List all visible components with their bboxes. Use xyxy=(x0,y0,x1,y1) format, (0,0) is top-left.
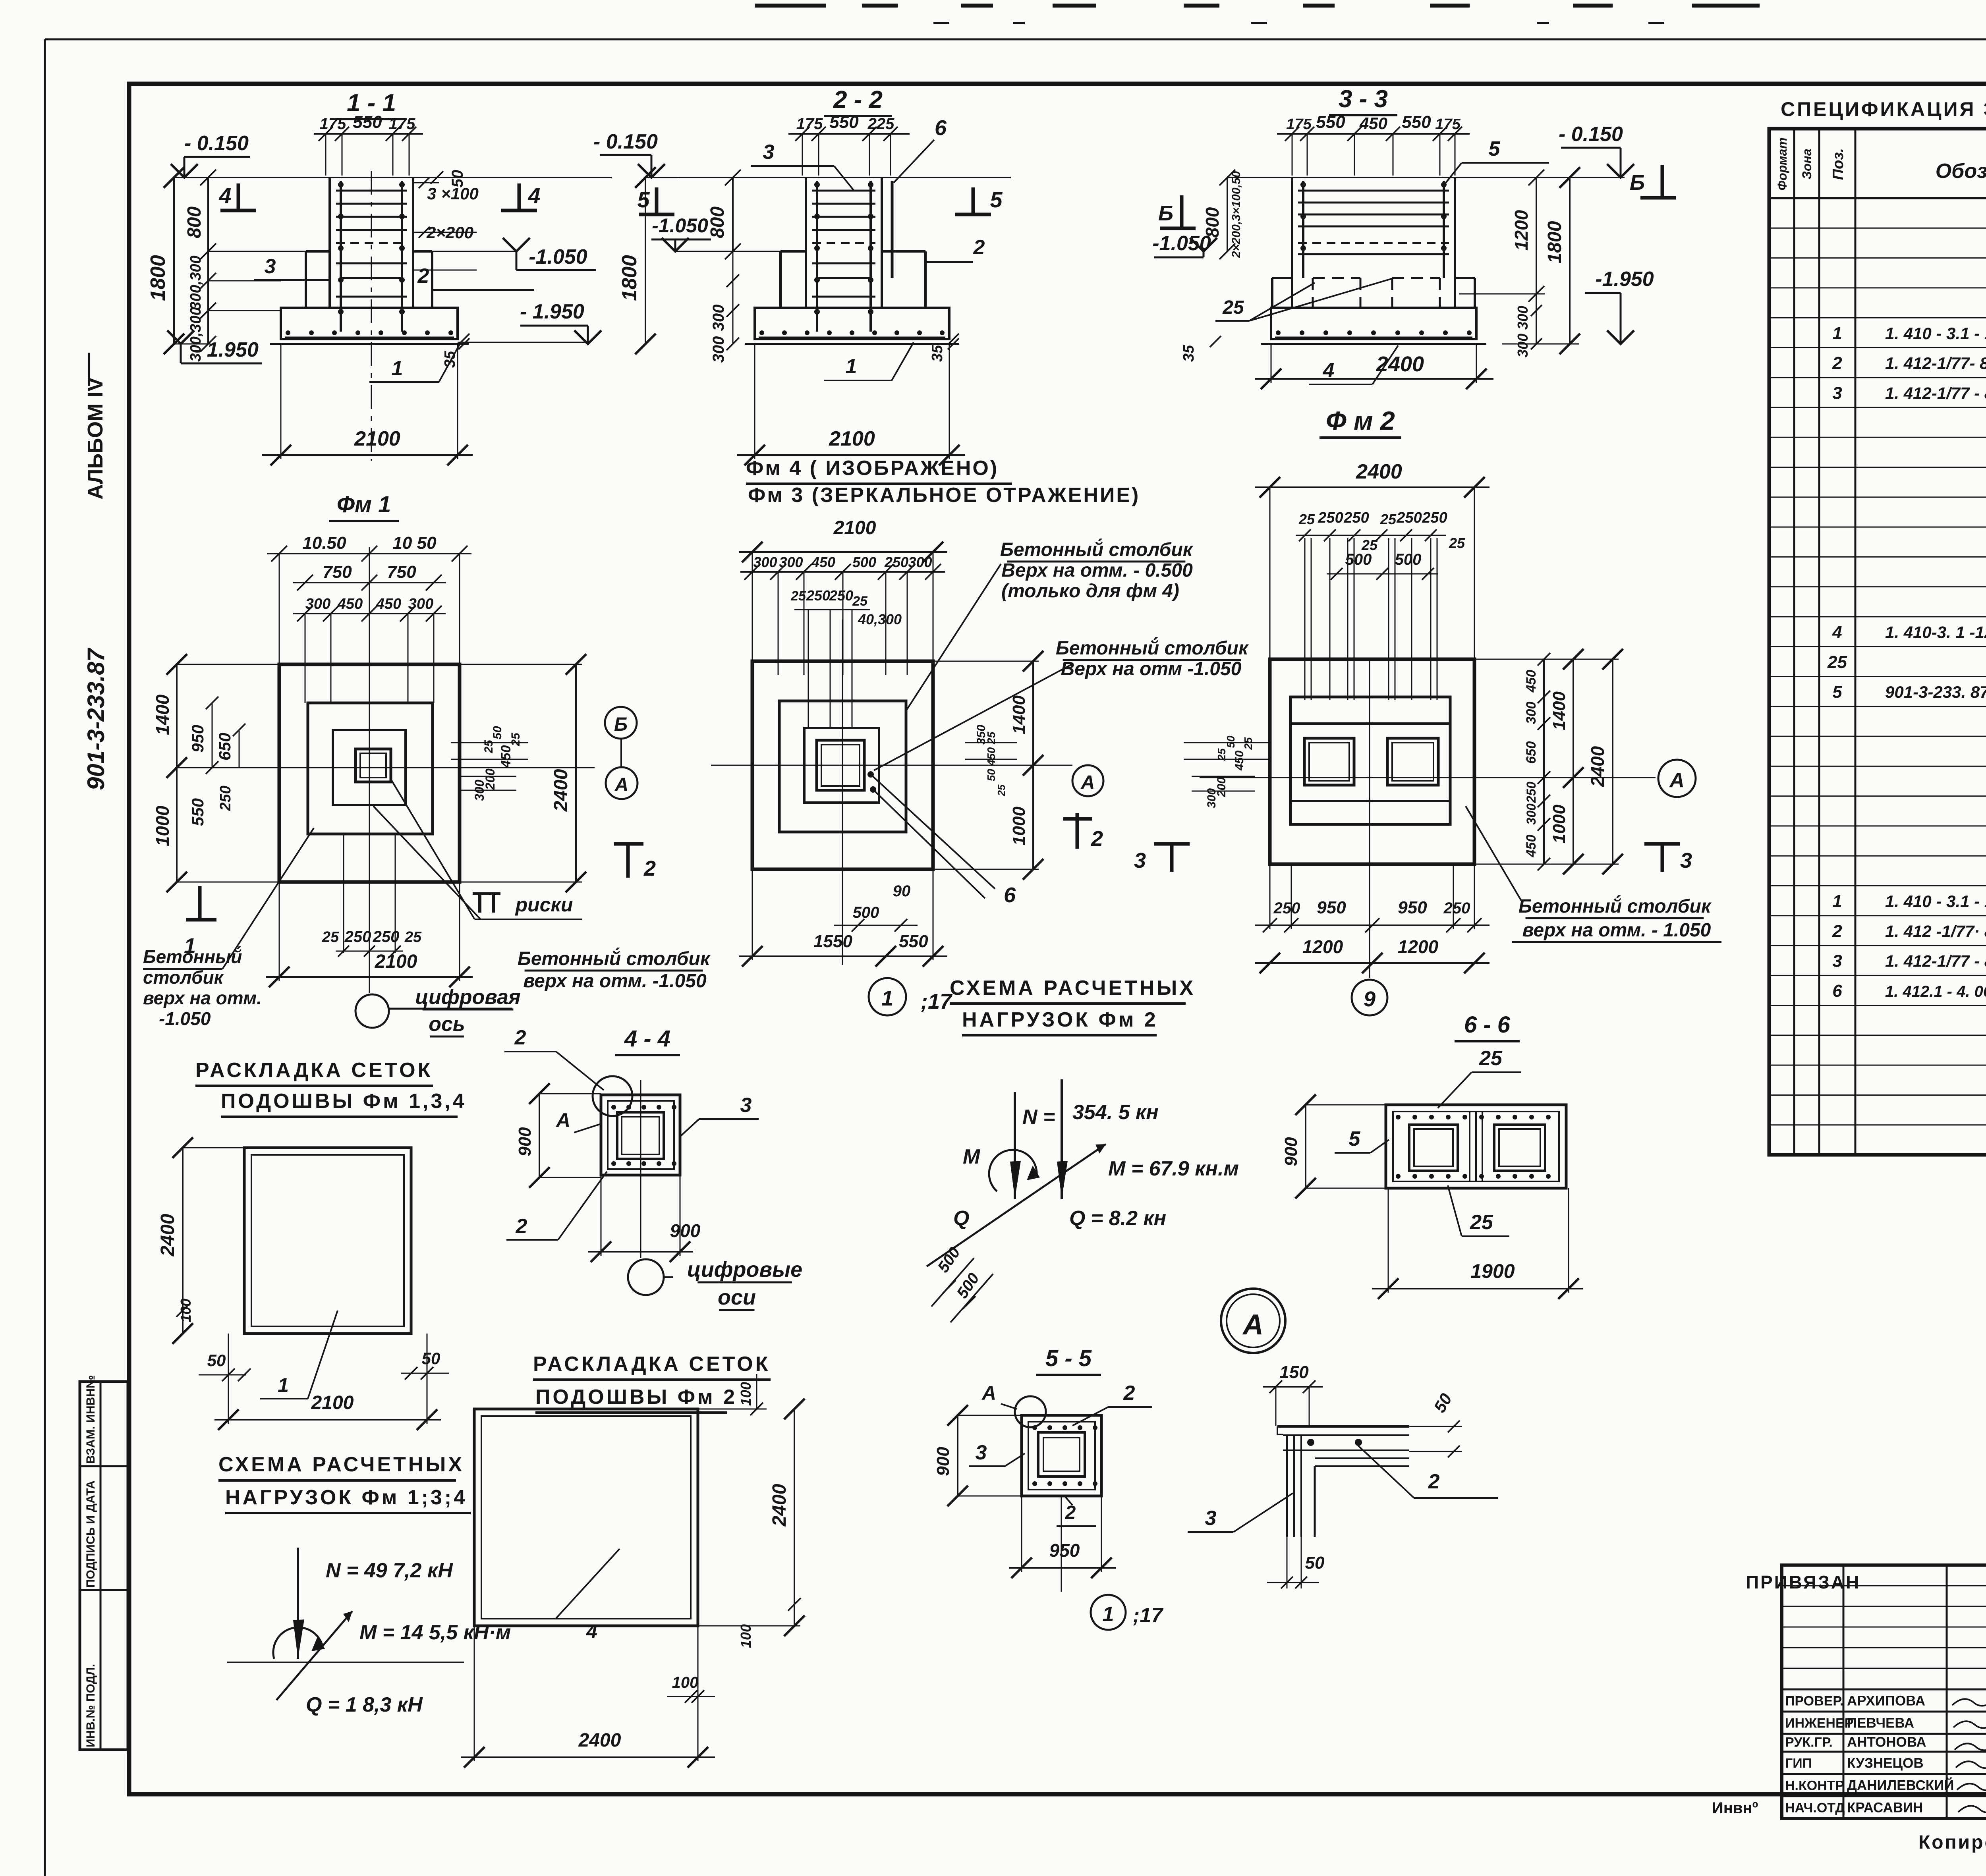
svg-text:риски: риски xyxy=(515,894,573,916)
section 1-1 step level extension xyxy=(432,251,586,342)
svg-text:РАСКЛАДКА СЕТОК: РАСКЛАДКА СЕТОК xyxy=(533,1353,770,1376)
svg-text:ПРОВЕР.: ПРОВЕР. xyxy=(1785,1693,1843,1708)
svg-text:ГИП: ГИП xyxy=(1785,1756,1812,1771)
section 2-2 left dim chain xyxy=(618,167,806,363)
section 1-1 column xyxy=(330,178,413,308)
svg-text:Q = 1 8,3 кН: Q = 1 8,3 кН xyxy=(306,1693,423,1716)
svg-text:цифровая: цифровая xyxy=(415,986,520,1009)
svg-text:35: 35 xyxy=(1180,345,1197,362)
section 2-2 section mark 5 right xyxy=(955,187,1003,214)
Фм2 plan footing outline xyxy=(1270,659,1474,864)
section 3-3 elevation -1.050 left xyxy=(1152,232,1217,257)
svg-text:Верх на отм. - 0.500: Верх на отм. - 0.500 xyxy=(1001,560,1193,581)
Фм2 section mark 3 left xyxy=(1134,844,1190,872)
section 1-1 leader 1 xyxy=(369,342,461,382)
svg-text:50 450 25: 50 450 25 xyxy=(985,731,997,781)
svg-text:750: 750 xyxy=(323,562,352,582)
svg-text:901-3-233. 87 - КЖИ.60.01.0: 901-3-233. 87 - КЖИ.60.01.00 xyxy=(1885,683,1986,701)
svg-text:Верх на отм -1.050: Верх на отм -1.050 xyxy=(1061,658,1242,679)
svg-text:Бетонный́ столбик: Бетонный́ столбик xyxy=(518,948,711,969)
title block roles and names xyxy=(1785,1693,1986,1815)
section 1-1 column axis xyxy=(371,171,372,461)
svg-text:500: 500 xyxy=(852,554,876,570)
svg-text:354. 5 кн: 354. 5 кн xyxy=(1072,1101,1159,1124)
section 1-1 title xyxy=(337,89,406,119)
svg-text:300: 300 xyxy=(408,596,433,612)
svg-text:500: 500 xyxy=(1395,551,1422,568)
svg-text:А: А xyxy=(1669,769,1685,792)
svg-text:250: 250 xyxy=(1422,510,1447,526)
svg-text:2×200,3×100,50: 2×200,3×100,50 xyxy=(1230,171,1243,258)
Фм2 right dim chains xyxy=(1474,649,1623,874)
Фм4 plan inner step xyxy=(804,728,879,803)
svg-text:6 - 6: 6 - 6 xyxy=(1464,1012,1511,1038)
svg-text:450: 450 xyxy=(498,745,514,768)
svg-text:25: 25 xyxy=(1470,1211,1493,1234)
svg-text:5: 5 xyxy=(637,187,650,212)
svg-text:ВЗАМ. ИНВН№: ВЗАМ. ИНВН№ xyxy=(84,1375,97,1464)
section 1-1 label 50 xyxy=(431,170,466,188)
svg-text:200: 200 xyxy=(1215,777,1228,797)
svg-text:901-3-233.87: 901-3-233.87 xyxy=(83,647,109,790)
Фм4 dims 25 250 250 25 xyxy=(790,587,902,727)
specification table header xyxy=(1775,137,1986,191)
svg-text:250: 250 xyxy=(884,554,908,570)
svg-text:ПОДПИСЬ И ДАТА: ПОДПИСЬ И ДАТА xyxy=(84,1480,97,1588)
svg-text:6: 6 xyxy=(935,116,947,140)
section 4-4 left dim 900 xyxy=(515,1083,601,1188)
Фм1 top dimension 750 750 xyxy=(293,562,446,591)
svg-text:250: 250 xyxy=(217,786,234,811)
section 2-2 column xyxy=(806,178,882,308)
svg-text:M = 67.9 кн.м: M = 67.9 кн.м xyxy=(1108,1157,1239,1180)
section 2-2 column rebar cage xyxy=(812,181,875,332)
section 3-3 section mark Б right xyxy=(1630,165,1676,198)
section 2-2 elevation -0.150 left xyxy=(593,130,665,178)
section 4-4 bottom dim 900 xyxy=(588,1175,701,1262)
svg-text:450: 450 xyxy=(1233,751,1246,771)
svg-text:2: 2 xyxy=(1123,1382,1135,1405)
Фм2 plan axes xyxy=(1200,659,1656,978)
svg-text:500: 500 xyxy=(853,904,879,921)
svg-text:4 - 4: 4 - 4 xyxy=(624,1026,670,1052)
section 2-2 step level extension xyxy=(675,251,780,252)
detail А corner drawing xyxy=(1277,1426,1409,1537)
section 1-1 top dimension 175,550,175 xyxy=(314,112,423,176)
detail А circle xyxy=(1221,1289,1285,1353)
mesh layout Фм2 bottom dims xyxy=(461,1626,715,1768)
svg-text:1800: 1800 xyxy=(1544,221,1565,263)
section 6-6 leader 25 bottom xyxy=(1448,1185,1509,1236)
svg-text:3: 3 xyxy=(265,255,276,278)
foundation Фм1 plan title xyxy=(329,492,399,521)
Фм2 mesh dims row xyxy=(1296,510,1465,580)
svg-text:250: 250 xyxy=(344,928,371,946)
Фм1 right dim 2400 xyxy=(460,654,586,892)
svg-text:450: 450 xyxy=(1359,114,1387,133)
section 3-3 left dim chain 800 xyxy=(1202,170,1243,259)
svg-text:300: 300 xyxy=(1515,334,1531,357)
section 1-1 bottom dimension 2100 xyxy=(262,345,473,465)
svg-text:СХЕМА РАСЧЕТНЫХ: СХЕМА РАСЧЕТНЫХ xyxy=(950,977,1196,1000)
svg-text:35: 35 xyxy=(442,351,458,368)
svg-text:10 50: 10 50 xyxy=(392,533,437,553)
section 1-1 footing mesh xyxy=(285,330,454,338)
svg-text:250: 250 xyxy=(1524,782,1538,803)
Фм1 bottom dimension 2100 xyxy=(266,882,473,987)
mesh layout title Фм134 xyxy=(195,1059,467,1117)
table row 2 xyxy=(1832,353,1986,373)
Фм4 top dimension 2100 xyxy=(739,517,947,661)
section 3-3 footing mesh xyxy=(1275,330,1472,338)
svg-text:Фм 4 ( ИЗОБРАЖЕНО): Фм 4 ( ИЗОБРАЖЕНО) xyxy=(746,457,999,480)
svg-text:225: 225 xyxy=(867,115,894,133)
foundation Фм2 plan title xyxy=(1319,406,1401,438)
svg-text:N = 49 7,2 кН: N = 49 7,2 кН xyxy=(326,1559,453,1582)
Фм1 section mark 2 xyxy=(614,844,656,880)
svg-text:5: 5 xyxy=(990,187,1003,212)
svg-text:ИНЖЕНЕР: ИНЖЕНЕР xyxy=(1785,1716,1853,1731)
svg-text:M: M xyxy=(963,1145,981,1168)
svg-text:175: 175 xyxy=(1286,116,1312,133)
svg-text:1. 412-1/77 - 8.3 - 020: 1. 412-1/77 - 8.3 - 020 xyxy=(1885,384,1986,402)
svg-text:90: 90 xyxy=(893,882,911,900)
svg-text:250: 250 xyxy=(1443,899,1470,917)
mesh layout Фм134 bottom dims xyxy=(199,1310,449,1430)
svg-text:;17: ;17 xyxy=(921,990,953,1013)
svg-text:2: 2 xyxy=(1832,353,1842,373)
svg-text:3: 3 xyxy=(740,1094,752,1117)
svg-text:АЛЬБОМ IV: АЛЬБОМ IV xyxy=(83,377,107,500)
section 4-4 square xyxy=(601,1095,680,1175)
svg-text:КУЗНЕЦОВ: КУЗНЕЦОВ xyxy=(1847,1755,1924,1771)
svg-text:А: А xyxy=(1081,772,1095,793)
Фм2 mesh bars xyxy=(1305,538,1437,700)
section 4-4 axis circle xyxy=(628,1259,664,1295)
Фм4 plan axes xyxy=(711,620,1072,965)
svg-text:1: 1 xyxy=(1103,1603,1114,1626)
svg-text:650: 650 xyxy=(215,733,234,760)
svg-text:50: 50 xyxy=(422,1349,440,1368)
svg-text:2100: 2100 xyxy=(311,1392,354,1413)
section 2-2 embedded plate 6 xyxy=(892,116,947,278)
svg-text:2: 2 xyxy=(514,1026,526,1049)
svg-text:;17: ;17 xyxy=(1133,1604,1163,1627)
load scheme Фм134 diagram xyxy=(227,1548,511,1716)
svg-text:2400: 2400 xyxy=(769,1484,790,1527)
svg-text:175: 175 xyxy=(1435,116,1461,133)
svg-text:Q = 8.2 кн: Q = 8.2 кн xyxy=(1069,1207,1166,1230)
svg-text:А: А xyxy=(555,1109,570,1131)
svg-text:Б: Б xyxy=(1630,171,1645,195)
section 1-1 tie spacing labels xyxy=(413,177,479,270)
section 3-3 elevation -0.150 right xyxy=(1559,123,1634,178)
Фм4 leader 6 xyxy=(867,771,1016,907)
section 1-1 left dim chain 1800 xyxy=(147,167,306,362)
svg-text:800: 800 xyxy=(184,207,205,238)
svg-text:1. 412 -1/77· 8.3 - 130: 1. 412 -1/77· 8.3 - 130 xyxy=(1885,922,1986,940)
Фм4 leader note -1.050 xyxy=(874,637,1249,770)
svg-text:3: 3 xyxy=(763,141,775,164)
svg-text:Бетонный́: Бетонный́ xyxy=(143,946,242,967)
section 1-1 elevation -0.150 xyxy=(171,132,250,178)
svg-text:300: 300 xyxy=(908,554,932,570)
Фм4 bottom dims xyxy=(739,869,947,967)
section 5-5 leader 2 bottom xyxy=(1057,1496,1096,1526)
svg-text:50: 50 xyxy=(449,170,466,188)
svg-text:Бетонный́ столбик: Бетонный́ столбик xyxy=(1000,539,1194,560)
section 3-3 leader 25 xyxy=(1215,278,1394,321)
svg-text:ПОДОШВЫ Фм 1,3,4: ПОДОШВЫ Фм 1,3,4 xyxy=(221,1090,467,1113)
Фм1 plan axes xyxy=(175,547,595,993)
svg-text:- 0.150: - 0.150 xyxy=(1559,123,1623,146)
detail А bottom dim 50 xyxy=(1267,1537,1325,1588)
section 1-1 ground line xyxy=(211,177,612,178)
Фм4 plan footing outline xyxy=(752,661,933,869)
svg-text:250: 250 xyxy=(1343,510,1369,526)
svg-text:1200: 1200 xyxy=(1511,210,1532,251)
section 2-2 bottom dimension 2100 xyxy=(737,345,965,465)
svg-text:- 1.950: - 1.950 xyxy=(194,338,259,361)
label цифровые оси xyxy=(664,1258,802,1310)
section 2-2 pedestal step xyxy=(780,251,925,308)
svg-text:900: 900 xyxy=(670,1220,701,1241)
svg-text:2100: 2100 xyxy=(375,951,417,972)
Фм2 section mark 3 right xyxy=(1644,844,1692,872)
svg-text:-1.050: -1.050 xyxy=(652,214,708,237)
svg-text:25: 25 xyxy=(1222,297,1244,318)
Фм1 section mark 1 xyxy=(184,886,216,958)
svg-text:Инвнº: Инвнº xyxy=(1712,1799,1758,1817)
svg-text:3: 3 xyxy=(1832,383,1842,403)
Фм2 bottom dims 250 950 950 250 xyxy=(1255,864,1489,973)
section 3-3 top dimension 175 550 450 550 175 xyxy=(1277,112,1470,176)
svg-text:5 - 5: 5 - 5 xyxy=(1045,1345,1092,1371)
svg-text:950: 950 xyxy=(188,725,207,753)
section 3-3 bottom dimension 2400 xyxy=(1255,345,1493,389)
section 5-5 axis to circle 1;17 xyxy=(1061,1496,1163,1630)
section 5-5 title xyxy=(1036,1345,1101,1375)
Фм1 left dim chain 1400/1000 xyxy=(152,654,279,892)
svg-text:А: А xyxy=(614,774,629,795)
инв номер label xyxy=(1712,1799,1758,1817)
svg-text:1. 412-1/77- 8.3 - 130: 1. 412-1/77- 8.3 - 130 xyxy=(1885,354,1986,372)
svg-text:2400: 2400 xyxy=(578,1730,621,1751)
svg-text:Зона: Зона xyxy=(1800,149,1814,179)
Фм4 right dim chain xyxy=(933,651,1043,880)
mesh layout Фм2 top right dims xyxy=(698,1374,767,1415)
svg-text:40,300: 40,300 xyxy=(858,611,902,627)
section 1-1 elevation -1.950 right xyxy=(520,300,601,344)
svg-text:СПЕЦИФИКАЦИЯ ЭЛЕМЕНТОВ МОНОЛИТ: СПЕЦИФИКАЦИЯ ЭЛЕМЕНТОВ МОНОЛИТНЫХ ФУНДАМ… xyxy=(1781,98,1986,120)
svg-text:25: 25 xyxy=(1479,1047,1503,1070)
svg-text:25: 25 xyxy=(1298,511,1315,527)
section 5-5 square xyxy=(1022,1415,1101,1496)
svg-text:Фм 1: Фм 1 xyxy=(337,492,391,517)
svg-text:5: 5 xyxy=(1832,682,1842,702)
section 1-1 elevation -1.050 right xyxy=(503,238,596,270)
svg-text:300: 300 xyxy=(1524,803,1538,825)
section 3-3 cage outline xyxy=(1292,178,1455,308)
section 1-1 leader 2 xyxy=(417,264,534,290)
svg-text:25: 25 xyxy=(322,929,339,946)
svg-text:100: 100 xyxy=(178,1299,194,1322)
section 2-2 ground line xyxy=(677,177,1011,178)
svg-text:100: 100 xyxy=(738,1382,754,1406)
Фм1 leader колонна note right xyxy=(518,948,711,992)
section 4-4 title xyxy=(615,1026,680,1055)
section 1-1 section mark 4 left xyxy=(218,183,256,210)
svg-text:300: 300 xyxy=(710,336,727,363)
svg-text:ПОДОШВЫ Фм 2: ПОДОШВЫ Фм 2 xyxy=(535,1386,737,1409)
svg-text:300: 300 xyxy=(779,554,803,570)
svg-text:800: 800 xyxy=(1202,207,1223,237)
svg-text:50: 50 xyxy=(1305,1553,1325,1573)
section 3-3 leader 4 xyxy=(1309,345,1398,384)
section 5-5 callout circle А xyxy=(981,1382,1046,1427)
detail А top dim 150 xyxy=(1263,1363,1323,1426)
svg-text:450: 450 xyxy=(811,554,835,570)
section 1-1 pedestal step xyxy=(306,251,432,308)
svg-text:1. 410 - 3.1 - 12: 1. 410 - 3.1 - 12 xyxy=(1885,324,1986,343)
Фм2 leader note -1.050 xyxy=(1466,806,1721,942)
load scheme Фм2 title xyxy=(950,977,1196,1035)
section 3-3 column stubs dashed xyxy=(1313,278,1440,308)
section 2-2 top dimension 175,550,225 xyxy=(788,112,910,176)
svg-text:50: 50 xyxy=(1225,735,1237,748)
svg-text:A: A xyxy=(981,1382,996,1404)
section 1-1 footing slab xyxy=(270,308,469,344)
section 3-3 footing slab xyxy=(1261,308,1486,344)
svg-text:3: 3 xyxy=(1832,952,1842,971)
title block left grid xyxy=(1782,1565,1986,1818)
svg-text:200: 200 xyxy=(483,768,497,790)
svg-text:900: 900 xyxy=(933,1447,953,1476)
svg-text:2 - 2: 2 - 2 xyxy=(833,86,883,114)
table row 6 xyxy=(1832,981,1986,1001)
svg-text:1800: 1800 xyxy=(147,255,170,301)
section 6-6 leader 25 top xyxy=(1438,1047,1521,1108)
svg-text:-1.050: -1.050 xyxy=(159,1008,211,1029)
Фм4 А circle xyxy=(1072,765,1103,796)
svg-text:1. 412.1 - 4. 060: 1. 412.1 - 4. 060 xyxy=(1885,983,1986,1000)
svg-text:1: 1 xyxy=(392,357,403,380)
svg-text:НАЧ.ОТД: НАЧ.ОТД xyxy=(1785,1800,1845,1815)
section 2-2 footing mesh xyxy=(759,330,945,338)
section 2-2 footing slab xyxy=(745,308,959,344)
svg-text:2400: 2400 xyxy=(1356,460,1402,483)
svg-text:2: 2 xyxy=(1428,1470,1440,1493)
svg-text:10.50: 10.50 xyxy=(302,533,346,553)
svg-text:300: 300 xyxy=(305,596,330,612)
svg-text:Обозначение: Обозначение xyxy=(1936,160,1986,183)
Фм1 label риски xyxy=(373,779,582,919)
table row 1 xyxy=(1832,324,1986,343)
svg-text:450: 450 xyxy=(1524,835,1539,858)
svg-text:Фм 3 (ЗЕРКАЛЬНОЕ ОТРАЖЕНИЕ): Фм 3 (ЗЕРКАЛЬНОЕ ОТРАЖЕНИЕ) xyxy=(748,484,1140,507)
section 2-2 elevation -1.050 left xyxy=(651,214,711,251)
svg-text:цифровые: цифровые xyxy=(687,1258,802,1282)
svg-text:900: 900 xyxy=(1281,1137,1301,1166)
svg-text:4: 4 xyxy=(586,1620,597,1642)
section 5-5 bottom dim 950 xyxy=(1009,1496,1116,1578)
svg-text:2100: 2100 xyxy=(829,427,875,450)
svg-text:2: 2 xyxy=(417,264,429,288)
svg-text:АРХИПОВА: АРХИПОВА xyxy=(1847,1693,1925,1708)
svg-text:- 1.950: - 1.950 xyxy=(520,300,584,323)
svg-text:300: 300 xyxy=(1524,702,1539,724)
svg-text:1. 412-1/77 - 8.3 - 020: 1. 412-1/77 - 8.3 - 020 xyxy=(1885,952,1986,971)
section 3-3 ground line xyxy=(1227,177,1625,178)
Фм4 plan column core xyxy=(817,740,864,790)
section 3-3 elevation -1.950 right xyxy=(1585,268,1654,344)
svg-text:3 - 3: 3 - 3 xyxy=(1339,85,1388,113)
svg-text:100: 100 xyxy=(672,1674,699,1691)
load scheme Фм2 diagram xyxy=(927,1079,1239,1322)
svg-text:(только для фм 4): (только для фм 4) xyxy=(1001,581,1179,602)
svg-text:-1.050: -1.050 xyxy=(529,245,587,268)
section 2-2 leader 3 xyxy=(751,141,854,191)
svg-text:550: 550 xyxy=(829,112,859,132)
svg-text:250: 250 xyxy=(829,587,853,604)
svg-text:2: 2 xyxy=(1091,827,1103,851)
Фм1 plan axis circle xyxy=(355,986,521,1036)
svg-text:1: 1 xyxy=(278,1374,289,1396)
svg-text:25: 25 xyxy=(1380,511,1397,527)
svg-text:НАГРУЗОК Фм 2: НАГРУЗОК Фм 2 xyxy=(962,1008,1158,1031)
section 6-6 left dim 900 xyxy=(1281,1094,1386,1199)
svg-text:Н.КОНТР: Н.КОНТР xyxy=(1785,1778,1844,1793)
svg-text:175: 175 xyxy=(796,115,823,133)
svg-text:50: 50 xyxy=(491,726,504,739)
table row 2b xyxy=(1832,921,1986,941)
svg-text:25: 25 xyxy=(995,784,1007,796)
detail А leader 3 xyxy=(1188,1493,1293,1532)
Фм2 axis circle 9 xyxy=(1352,980,1387,1015)
specification table title xyxy=(1781,98,1986,120)
Фм2 А circle xyxy=(1658,760,1696,797)
svg-text:5: 5 xyxy=(1489,137,1501,160)
svg-text:250: 250 xyxy=(1396,510,1422,526)
svg-text:3: 3 xyxy=(1680,849,1692,872)
svg-text:450: 450 xyxy=(376,596,401,612)
section 1-1 elevation -1.950 left xyxy=(167,330,262,363)
svg-text:2: 2 xyxy=(973,236,985,259)
section 3-3 section mark Б left xyxy=(1158,195,1196,228)
svg-text:450: 450 xyxy=(337,596,363,612)
Фм2 plan column cores xyxy=(1304,738,1438,785)
svg-text:300: 300 xyxy=(1515,306,1531,330)
mesh layout Фм2 label 4 xyxy=(556,1549,620,1642)
svg-text:РУК.ГР.: РУК.ГР. xyxy=(1785,1735,1833,1750)
svg-text:верх на отм.: верх на отм. xyxy=(143,988,262,1008)
svg-text:Q: Q xyxy=(953,1207,969,1230)
Фм1 top dimension 300 450 450 300 xyxy=(293,596,446,703)
svg-text:300,300: 300,300 xyxy=(187,255,204,310)
svg-text:300: 300 xyxy=(753,554,777,570)
table row 3 xyxy=(1832,383,1986,403)
svg-text:НАГРУЗОК Фм 1;3;4: НАГРУЗОК Фм 1;3;4 xyxy=(225,1486,468,1509)
svg-text:950: 950 xyxy=(1049,1540,1080,1561)
svg-text:250: 250 xyxy=(806,587,830,604)
svg-text:175: 175 xyxy=(320,115,346,133)
svg-text:650: 650 xyxy=(1524,741,1539,764)
section 6-6 title xyxy=(1455,1012,1520,1041)
svg-text:ДАНИЛЕВСКИЙ: ДАНИЛЕВСКИЙ xyxy=(1847,1777,1954,1793)
копировал caption xyxy=(1918,1832,1986,1853)
section 4-4 callout circle xyxy=(593,1076,632,1116)
section 4-4 leader 3 xyxy=(680,1094,759,1137)
